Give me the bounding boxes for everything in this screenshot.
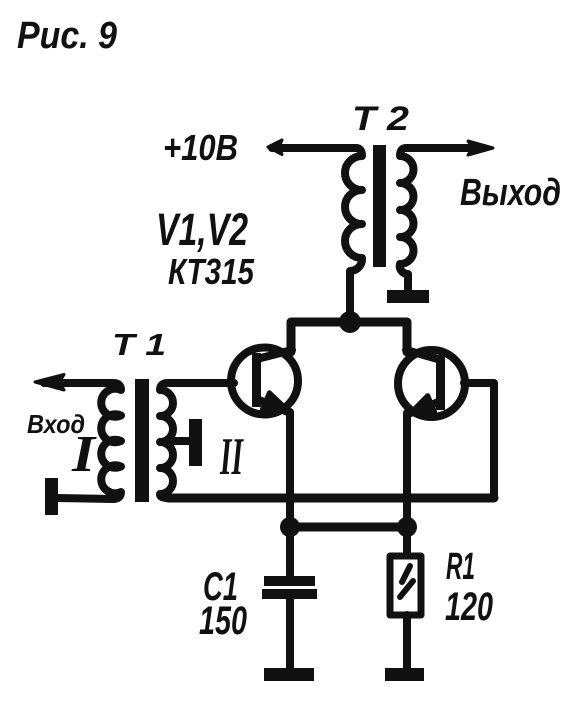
transformer T1 primary winding xyxy=(44,383,121,499)
transformer T2 secondary winding xyxy=(400,148,414,292)
arrow output (right) xyxy=(468,141,493,155)
transistor V2 emitter arrow xyxy=(411,396,435,413)
transistor V1 emitter lead xyxy=(257,399,290,413)
wire collector rail xyxy=(291,322,407,352)
transistor V1 collector lead xyxy=(257,350,292,359)
svg-text:КТ315: КТ315 xyxy=(168,251,255,292)
svg-text:120: 120 xyxy=(445,585,493,629)
transistor V2 base bar xyxy=(436,355,445,410)
node junction emitter rail left xyxy=(280,517,300,537)
transistor V1 base bar xyxy=(252,353,261,407)
transistor V1 xyxy=(231,348,298,415)
node junction emitter rail right xyxy=(397,517,417,537)
transistor V2 collector lead xyxy=(406,350,441,360)
ground under C1 xyxy=(264,668,314,681)
wire bottom rail xyxy=(168,494,494,503)
svg-text:Т 2: Т 2 xyxy=(352,100,409,138)
transformer T1 core xyxy=(135,379,149,502)
node junction T2 primary / collector rail xyxy=(339,311,361,333)
wire V2 emitter down to R1 xyxy=(403,413,411,556)
wire +10V rail to T2 primary top xyxy=(272,144,356,152)
svg-text:I: I xyxy=(71,426,97,483)
transformer T2 core xyxy=(373,145,386,267)
resistor R1 body xyxy=(390,556,421,615)
svg-text:R1: R1 xyxy=(446,546,475,588)
wire C1 to ground xyxy=(286,599,294,668)
transformer T1 secondary center tap wire xyxy=(168,437,190,445)
transistor V2 xyxy=(398,350,465,417)
svg-text:150: 150 xyxy=(199,599,247,643)
resistor R1 power mark xyxy=(400,566,413,597)
arrow input (left) xyxy=(35,375,64,391)
svg-text:Т 1: Т 1 xyxy=(112,327,166,362)
transistor V2 emitter lead xyxy=(408,401,441,414)
wire R1 to ground xyxy=(403,615,411,668)
svg-text:II: II xyxy=(219,428,244,486)
capacitor C1 plate bottom xyxy=(262,589,317,599)
transistor V1 emitter arrow xyxy=(262,393,288,411)
svg-text:V1,V2: V1,V2 xyxy=(156,204,248,255)
wire T2 secondary top to output arrow xyxy=(406,144,484,152)
svg-text:+10В: +10В xyxy=(163,127,238,168)
arrow +10V (left) xyxy=(268,140,282,155)
ground terminal input left xyxy=(45,478,58,515)
wire V2 base feedback to bottom rail xyxy=(464,383,494,498)
svg-text:Выход: Выход xyxy=(460,172,561,214)
transformer T1 secondary center tap terminal xyxy=(189,419,202,466)
transformer T1 secondary winding xyxy=(160,383,173,498)
capacitor C1 plate top xyxy=(264,576,315,586)
wire emitter rail xyxy=(290,523,407,532)
wire V1 base to T1 secondary xyxy=(168,379,234,387)
ground under R1 xyxy=(385,668,424,681)
svg-text:Рис. 9: Рис. 9 xyxy=(17,15,117,57)
ground under T2 secondary xyxy=(387,290,429,303)
transformer T2 primary winding xyxy=(345,148,362,318)
wire V1 emitter down to C1 xyxy=(286,412,294,575)
